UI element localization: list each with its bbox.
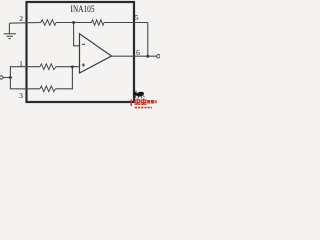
op-amp A1 triangle [80,34,112,73]
svg-text:3: 3 [19,91,23,100]
ground [4,23,17,38]
op-amp U1 IC outline box [27,2,135,102]
node output junction dot [146,55,149,58]
wire pin5 vertical down to output node [147,23,149,57]
wire R4 up to plus-input node [56,67,73,89]
watermark ant logo [133,90,144,98]
node plus-input junction dot [71,65,74,68]
svg-text:1: 1 [19,59,23,68]
wire R3 to noninverting input [56,66,80,68]
svg-text:6: 6 [136,48,140,57]
node input junction dot [9,76,12,79]
wire pin2 from ground to R1 [9,22,41,25]
wire op-amp output to terminal [112,55,157,57]
resistor R2 [92,20,105,25]
wire R1 to R2 [56,22,92,24]
wire input terminal to junction [3,77,10,79]
input terminal circle [0,76,3,79]
resistor R1 [41,20,56,26]
output terminal circle [157,55,160,58]
watermark red bar [131,100,132,107]
wire input down-branch to pin 3 [10,78,40,89]
op-amp minus sign [82,43,85,45]
node feedback junction dot [72,21,75,24]
watermark text 虫虫 (drawn) [135,99,147,105]
wire input up-branch to pin 1 [10,67,40,78]
svg-text:5: 5 [135,13,139,22]
watermark text 电子 small (drawn) [147,100,157,104]
svg-text:2: 2 [19,14,23,23]
wire R2 to pin5 and out to corner [104,22,148,24]
watermark url line [135,107,152,109]
resistor R3 [40,64,56,70]
svg-text:INA105: INA105 [71,4,95,14]
resistor R4 [40,86,56,92]
op-amp plus sign [82,64,85,66]
wire feedback node down to inverting input [74,23,80,46]
